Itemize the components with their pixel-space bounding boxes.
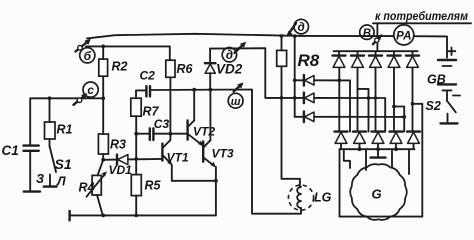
junction cathode column on rail: [293, 34, 297, 38]
wire: rectifier plus rail: [334, 50, 418, 52]
rectifier diode bottom B: [353, 132, 366, 150]
label: winter position: [36, 172, 44, 186]
wire: VD2 cathode to terminal d and down to R8 node: [210, 48, 295, 98]
terminal d (connector arrow): [235, 42, 247, 53]
wire: phase lead into stator left: [344, 149, 350, 168]
additional diode 2: [295, 93, 386, 104]
svg-text:РА: РА: [396, 30, 411, 42]
svg-text:VD2: VD2: [216, 62, 243, 77]
svg-text:GB: GB: [427, 73, 446, 87]
junction emitter line: [214, 179, 218, 183]
svg-text:R3: R3: [110, 138, 126, 152]
wire: field bus from C2 to LG: [150, 90, 301, 214]
svg-text:VT3: VT3: [212, 147, 234, 161]
terminal sh (connector arrow): [234, 82, 244, 91]
transistor VT2: [188, 90, 216, 146]
ground bar of C1: [24, 190, 40, 192]
wire: phase lead into stator right: [408, 149, 410, 174]
wire: additional rectifier cathode column: [294, 36, 296, 117]
wire: VT1 emitter to VT3 emitter line: [172, 180, 216, 182]
additional diode 3: [295, 112, 405, 123]
node label circle V: [360, 25, 374, 40]
capacitor C2: [140, 69, 156, 97]
svg-text:G: G: [372, 187, 382, 202]
wire: phase lead into stator mid-left: [365, 149, 367, 170]
junction R3 top: [101, 96, 105, 100]
resistor R1: [45, 98, 73, 146]
junction VT2 collector on bus: [192, 88, 196, 92]
rectifier diode top A: [333, 51, 346, 131]
svg-text:R6: R6: [177, 62, 194, 76]
resistor R7: [131, 90, 160, 118]
node label circle sh: [228, 93, 243, 108]
wire: phase B jog: [358, 89, 371, 132]
resistor R5: [131, 159, 161, 216]
junction R2 top: [101, 45, 105, 49]
junction C3 left: [134, 132, 138, 136]
svg-text:д: д: [226, 50, 233, 62]
wire: C3 to VT2 base: [153, 133, 187, 135]
svg-text:б: б: [84, 49, 92, 63]
svg-text:R4: R4: [79, 181, 95, 195]
wire: voltage sense wire: [30, 97, 103, 99]
svg-text:к потребителям: к потребителям: [375, 9, 468, 23]
rectifier diode top E: [406, 51, 419, 131]
terminal b (connector arrow): [76, 39, 91, 52]
junction R4 bottom: [101, 214, 105, 218]
rectifier diode top C: [369, 51, 382, 131]
node label circle d: [222, 48, 236, 63]
junction R8 top on rail: [280, 34, 284, 38]
switch S2: [426, 99, 456, 123]
wire: add-diode1 jog down to phase A bar: [337, 79, 350, 132]
label: to consumers: [373, 9, 471, 24]
wire: consumers line down to rectifier plus: [376, 23, 378, 51]
junction R1 top: [48, 96, 52, 100]
svg-text:д: д: [298, 22, 305, 34]
wire: R7 bottom to C3 tap to VT1 base to R5: [135, 116, 137, 159]
junction R5 bottom: [134, 214, 138, 218]
transistor VT3: [203, 140, 234, 167]
svg-text:C2: C2: [140, 69, 156, 83]
generator stator G: [350, 164, 407, 220]
rectifier diode bottom D: [390, 132, 403, 150]
resistor R2: [99, 46, 128, 98]
junction R6/VT1 collector on VT2 base line: [169, 132, 173, 136]
wire: R8 bottom down to field winding LG: [282, 66, 300, 187]
terminal d2 (connector arrow at top rail): [287, 23, 296, 37]
svg-text:C1: C1: [2, 143, 19, 158]
rectifier diode bottom E: [407, 132, 420, 150]
rectifier diode top B: [351, 51, 364, 131]
rectifier diode top D: [388, 51, 401, 131]
ground bar of S2: [441, 122, 458, 124]
junction top add-diode: [293, 78, 297, 82]
variable resistor R4: [79, 160, 108, 216]
diode VD2: [205, 49, 243, 90]
wire: add-diode2 jog down to phase C bar: [384, 98, 386, 132]
transistor VT1: [162, 134, 188, 181]
diode VD1: [103, 155, 132, 177]
junction VD2 anode on bus: [209, 88, 213, 92]
wire: battery to switch S2: [446, 90, 448, 100]
terminal c (connector arrow): [74, 93, 88, 105]
svg-text:C3: C3: [154, 117, 170, 131]
node label circle b: [80, 48, 95, 63]
additional diode 1: [295, 75, 350, 86]
wire: R6 bottom down to VT2 base node (crosses field bus): [169, 77, 171, 133]
svg-text:R1: R1: [57, 123, 73, 137]
svg-text:VD1: VD1: [109, 163, 133, 177]
wire: phase lead into stator mid-right: [391, 149, 393, 167]
field winding LG: [288, 185, 331, 210]
wire: second rail feeding R2 and R6: [86, 46, 170, 60]
resistor R6: [166, 60, 194, 77]
ammeter PA: [394, 25, 414, 45]
resistor R8: [277, 36, 320, 70]
wire: + top rail: [87, 34, 394, 39]
svg-text:Л: Л: [56, 175, 66, 189]
svg-text:S2: S2: [426, 99, 441, 113]
svg-text:З: З: [36, 172, 44, 186]
ground bar of S1: [44, 185, 57, 187]
svg-text:R5: R5: [145, 179, 162, 193]
svg-text:R8: R8: [298, 51, 320, 70]
junction add-diode3 at D jog: [402, 115, 406, 119]
svg-text:LG: LG: [314, 191, 332, 205]
rectifier diode bottom A: [335, 132, 348, 150]
wire: phase D jog: [392, 105, 404, 132]
node label circle c: [83, 82, 98, 97]
switch S1: [50, 146, 72, 186]
wire: bottom rail of regulator: [70, 167, 216, 221]
node label circle d2: [294, 19, 309, 34]
wire: phase E to right frame: [340, 102, 423, 217]
junction R8 line at d-line: [280, 96, 284, 100]
svg-text:ш: ш: [231, 96, 241, 108]
capacitor C1: [2, 98, 39, 191]
capacitor C3: [136, 117, 169, 140]
svg-text:В: В: [363, 28, 371, 40]
ground of generator: [371, 149, 386, 157]
rectifier diode bottom C: [372, 132, 385, 150]
svg-text:VT2: VT2: [193, 125, 215, 139]
label: summer position: [56, 175, 66, 189]
wire: top rail from PA to battery: [414, 36, 447, 57]
resistor R3: [98, 98, 126, 160]
wire: VT3 collector up to bus and VD2: [209, 90, 211, 141]
svg-text:S1: S1: [55, 156, 72, 172]
wire: VD1 cathode to VT1 base: [128, 158, 162, 161]
wire: rectifier minus rail: [340, 147, 415, 151]
battery GB: [427, 48, 460, 96]
junction R5/R7 column at VT1 base: [134, 157, 138, 161]
terminal v (connector arrow): [373, 34, 382, 44]
svg-text:с: с: [87, 85, 94, 97]
junction R3/VD1/R4 node: [101, 158, 105, 162]
junction mid add-diode: [293, 96, 297, 100]
svg-text:R2: R2: [112, 60, 128, 74]
svg-text:VT1: VT1: [167, 151, 189, 165]
